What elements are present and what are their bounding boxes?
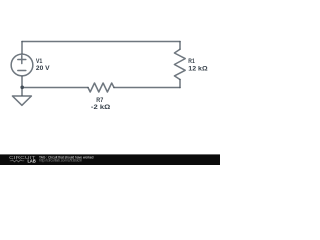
V1 minus sign [18, 70, 26, 72]
wire bottom left segment [22, 87, 88, 89]
resistor R1 [174, 49, 185, 79]
footer bar [0, 154, 220, 165]
node junction dot [20, 86, 24, 90]
ground [12, 96, 31, 105]
svg-text:20 V: 20 V [36, 65, 51, 72]
CircuitLab logo zigzag [10, 160, 24, 162]
svg-text:R7: R7 [96, 97, 103, 104]
V1 plus sign [18, 56, 26, 64]
resistor R7 [88, 83, 114, 92]
svg-text:V1: V1 [36, 58, 43, 65]
svg-text:R1: R1 [188, 58, 195, 65]
svg-text:-2 kΩ: -2 kΩ [91, 104, 110, 111]
wire left lead V1 top [21, 42, 23, 54]
wire right lead R1 top [179, 42, 181, 50]
wire bottom right segment [114, 87, 180, 89]
svg-text:12 kΩ: 12 kΩ [188, 65, 207, 72]
wire V1 bottom lead [21, 77, 23, 97]
svg-text:LAB: LAB [28, 159, 36, 164]
wire top horizontal [22, 41, 180, 43]
wire right lead R1 bottom [179, 80, 181, 88]
svg-text:http://circuitlab.com/c/938dc9: http://circuitlab.com/c/938dc9/ [39, 159, 82, 163]
voltage source V1 [11, 54, 33, 76]
